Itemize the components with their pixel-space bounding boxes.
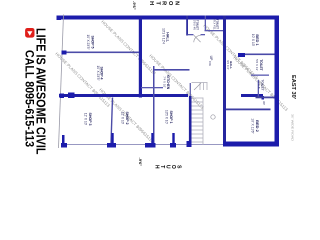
stairs shaft top line xyxy=(202,98,204,146)
svg-text:12' X 10': 12' X 10' xyxy=(84,113,88,126)
svg-text:SHOP 3: SHOP 3 xyxy=(88,112,92,125)
room A bottom wall xyxy=(205,16,206,31)
svg-text:30' WIDE ROAD: 30' WIDE ROAD xyxy=(291,114,295,141)
svg-text:10' X 23'3": 10' X 23'3" xyxy=(96,65,100,80)
spine lower pier xyxy=(68,93,75,99)
svg-text:HOUSE PLANS CONTACT 8095615113: HOUSE PLANS CONTACT 8095615113 xyxy=(54,51,111,108)
room B/C divider xyxy=(251,75,269,76)
toilet door arc xyxy=(194,35,201,42)
svg-text:R: R xyxy=(161,1,167,5)
svg-text:-9'6": -9'6" xyxy=(132,1,137,10)
svg-text:T: T xyxy=(154,1,160,5)
room C bottom wall xyxy=(258,80,259,98)
room A right wall xyxy=(205,30,224,31)
shop5/4 divider bottom pier xyxy=(62,51,67,55)
stairs bottom wall xyxy=(189,96,192,147)
column circle xyxy=(211,115,215,119)
svg-text:EAST 30': EAST 30' xyxy=(290,75,296,100)
svg-text:12' X 10': 12' X 10' xyxy=(121,112,125,125)
youtube icon xyxy=(25,28,34,38)
svg-text:SHOP 2: SHOP 2 xyxy=(125,111,129,124)
svg-text:UP: UP xyxy=(262,101,266,105)
svg-text:10' X 11'6": 10' X 11'6" xyxy=(251,118,255,134)
svg-text:H: H xyxy=(154,165,160,169)
shop3/shop2 divider xyxy=(111,98,113,144)
svg-text:5'6 X 13': 5'6 X 13' xyxy=(255,59,259,71)
stairs door swing xyxy=(194,83,201,90)
shop3/2 divider thick end xyxy=(111,133,113,143)
spine top tick xyxy=(262,96,265,100)
svg-text:HOUSE PLANS CONTACT 8095615113: HOUSE PLANS CONTACT 8095615113 xyxy=(100,19,157,76)
svg-text:15R: 15R xyxy=(208,61,212,66)
bed2 left wall xyxy=(226,109,271,111)
shop5/shop4 divider xyxy=(66,52,139,54)
svg-text:13'5 X 10': 13'5 X 10' xyxy=(165,110,169,124)
east wall upper thick section xyxy=(223,142,279,147)
outer top wall xyxy=(275,16,280,147)
svg-text:5'8 X 4'11: 5'8 X 4'11 xyxy=(213,18,217,30)
svg-text:5'8 X 4'6: 5'8 X 4'6 xyxy=(193,20,197,30)
spine bottom tick xyxy=(60,94,65,99)
stair risers xyxy=(192,98,204,142)
passage stub wall xyxy=(141,87,163,88)
svg-text:10' X 13': 10' X 13' xyxy=(251,34,255,47)
toilet bottom wall xyxy=(186,16,188,36)
svg-text:SHOP 1: SHOP 1 xyxy=(169,110,173,123)
svg-text:D: D xyxy=(256,96,259,98)
svg-text:O: O xyxy=(167,1,173,6)
stair winders xyxy=(192,83,208,91)
svg-text:CALL 8095-615-113: CALL 8095-615-113 xyxy=(23,50,37,147)
svg-text:H: H xyxy=(148,1,154,5)
shops back wall xyxy=(139,16,142,98)
kitchen left wall xyxy=(153,69,190,71)
front (east) thin line xyxy=(62,144,277,145)
left wall bottom tick xyxy=(57,16,62,21)
svg-text:-9'6": -9'6" xyxy=(138,158,143,167)
shop2/1 divider thick end xyxy=(151,133,153,143)
svg-text:N: N xyxy=(174,1,180,5)
bed1 right wall xyxy=(245,54,275,56)
room C right wall xyxy=(256,97,275,99)
south label xyxy=(154,165,182,169)
kitchen / shop1 bottom wall xyxy=(153,66,155,147)
spine vertical wall xyxy=(241,94,263,97)
toilet right wall xyxy=(201,34,206,35)
bottom-right corner L pier xyxy=(62,135,65,143)
main cross wall (front block divider) xyxy=(223,16,226,147)
shop3/2 front pier xyxy=(107,143,116,148)
outer left wall xyxy=(59,16,279,20)
svg-text:BED 2: BED 2 xyxy=(255,120,260,133)
svg-text:6' X 5': 6' X 5' xyxy=(257,81,261,89)
svg-text:9'6 X 6': 9'6 X 6' xyxy=(226,60,230,70)
svg-text:10' X 23'3": 10' X 23'3" xyxy=(86,34,90,49)
shop1 middle pier stem xyxy=(172,133,174,143)
north label xyxy=(148,1,180,6)
south slanted boundary xyxy=(59,15,64,149)
svg-text:13'1 X 12'4: 13'1 X 12'4 xyxy=(161,28,165,44)
shop2/1 front pier xyxy=(145,143,156,148)
svg-text:UP: UP xyxy=(209,56,213,61)
svg-text:7'4 X 10': 7'4 X 10' xyxy=(163,76,167,88)
stairs wall front foot xyxy=(187,141,192,147)
bed1 door pier xyxy=(238,53,245,57)
shop1 middle front pier xyxy=(170,143,176,148)
